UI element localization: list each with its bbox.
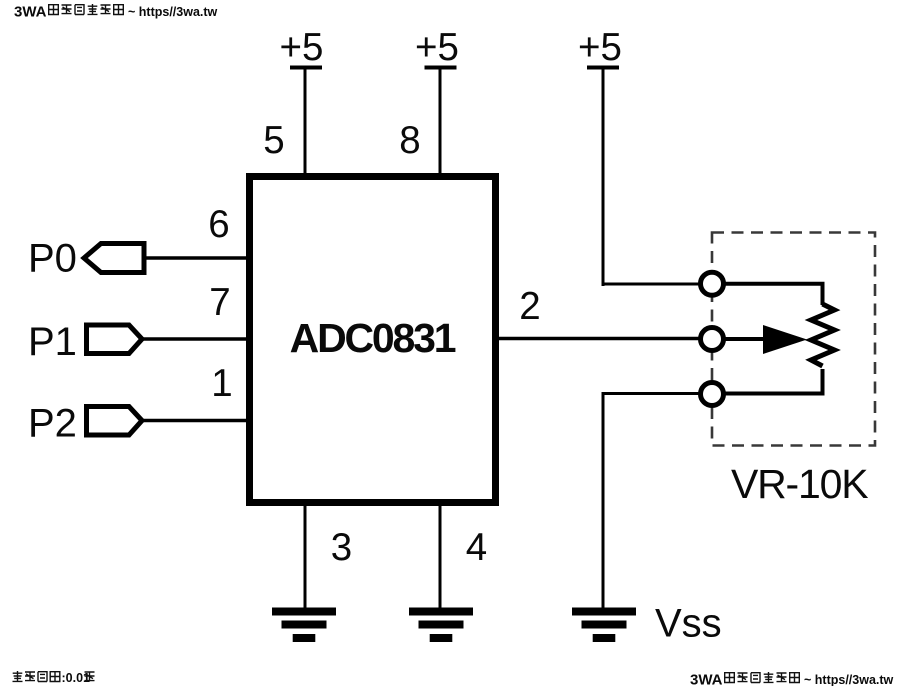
svg-text:~ https//3wa.tw: ~ https//3wa.tw xyxy=(804,673,894,686)
svg-text:+5: +5 xyxy=(578,26,622,69)
svg-text:1: 1 xyxy=(211,362,232,405)
svg-text:4: 4 xyxy=(466,526,487,569)
svg-text:VR-10K: VR-10K xyxy=(731,461,868,507)
svg-text:3WA: 3WA xyxy=(690,672,723,686)
svg-text:3WA: 3WA xyxy=(14,4,47,21)
svg-text:+5: +5 xyxy=(415,26,459,69)
svg-text:ADC0831: ADC0831 xyxy=(290,315,456,361)
svg-text:8: 8 xyxy=(399,119,420,162)
svg-text:3: 3 xyxy=(331,526,352,569)
svg-text:2: 2 xyxy=(519,285,540,328)
svg-text:6: 6 xyxy=(208,203,229,246)
svg-text:~ https//3wa.tw: ~ https//3wa.tw xyxy=(128,5,218,19)
svg-text::0.01: :0.01 xyxy=(62,671,91,685)
svg-text:P0: P0 xyxy=(28,237,77,281)
svg-text:7: 7 xyxy=(209,281,230,324)
svg-text:P2: P2 xyxy=(28,402,77,446)
svg-text:+5: +5 xyxy=(280,26,324,69)
svg-text:P1: P1 xyxy=(28,320,77,364)
svg-text:5: 5 xyxy=(263,119,284,162)
svg-text:Vss: Vss xyxy=(655,602,722,646)
